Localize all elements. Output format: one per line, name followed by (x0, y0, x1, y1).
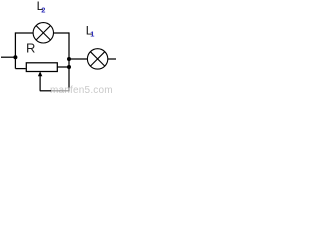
svg-text:R: R (26, 40, 35, 55)
svg-text:manfen5.com: manfen5.com (50, 85, 113, 94)
svg-text:2: 2 (41, 5, 45, 14)
svg-text:1: 1 (90, 29, 94, 38)
